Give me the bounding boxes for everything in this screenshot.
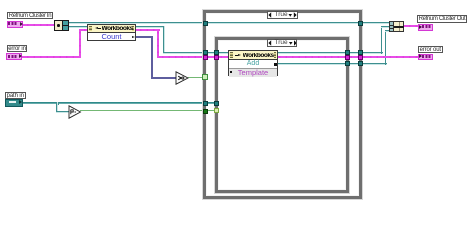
label path in [5,92,26,99]
tunnel: error inner left [214,55,219,60]
tunnel: workbook refnum inner right [345,61,350,66]
label error out [418,46,443,53]
tunnel: error outer left [203,55,208,60]
wire: boolean from path-check triangle to inner case selector (green) [80,110,218,111]
terminal Refnum Cluster In [7,21,24,29]
tunnel: path outer left [203,101,208,106]
parameter Template row [229,68,277,77]
wire: property node error out down and across to error out terminal (pink) [135,29,160,31]
bundle node [389,21,404,32]
method Add row [229,61,277,68]
terminal Refnum Cluster Out [418,24,433,31]
wire: Add return value to bundle bottom input (teal) [277,63,387,65]
tunnel: workbook refnum outer right [358,61,363,66]
wire: path in to inner case tunnel (teal path) [23,102,218,104]
wire junction on path wire [56,102,59,105]
inner case selector label "True" [267,39,297,47]
tunnel: Workbooks refnum outer right [358,50,363,55]
wire: bundle output to Refnum Cluster Out terminal (pink) [404,25,419,27]
wire: Refnum Cluster In terminal to unbundle (pink) [22,24,55,26]
inner case selector terminal [214,108,220,114]
wire: Application refnum (unbundle to bundle, teal) [68,22,390,24]
label Refnum Cluster Out [417,15,467,23]
property Count [88,34,135,41]
wire: boolean from comparison to outer case selector (green) [188,77,204,78]
tunnel: Workbooks refnum inner right [345,50,350,55]
tunnel: path inner left [214,101,219,106]
label error in [7,45,27,52]
outer case selector terminal [202,74,208,80]
comparison node Greater Than 0? [175,71,189,85]
wire: Workbooks refnum unbundle to property node (teal) [68,26,88,28]
terminal error in [6,53,22,60]
tunnel: error inner right [345,55,350,60]
wire: invoke node ref out to bundle middle input (teal) [277,52,383,54]
tunnel: App refnum through outer left border [203,21,208,26]
property node Workbooks [87,24,136,41]
tunnel: Workbooks refnum outer left [203,50,208,55]
wire: property node dup ref out, right then down then right to invoke node (teal) [135,26,165,28]
outer case structure frame [203,10,362,199]
wire: path branch down to Not-A-Path triangle [56,102,58,113]
path-check triangle (Not A Path?) [68,105,82,119]
tunnel: boolean outer left [203,109,208,114]
inner case structure frame [215,37,349,193]
tunnel: Workbooks refnum inner left [214,50,219,55]
unbundle node [54,20,69,31]
wire: error in terminal to property node (pink cluster) [22,56,81,58]
terminal error out [418,54,433,61]
invoke node Workbooks.Add [228,50,278,76]
terminal path in [5,99,23,107]
label Refnum Cluster In [7,12,53,19]
tunnel: error outer right [358,55,363,60]
tunnel: App refnum outer right [358,21,363,26]
outer case selector label "True" [267,11,298,19]
wire: Count value to comparison (blue) [135,36,153,38]
